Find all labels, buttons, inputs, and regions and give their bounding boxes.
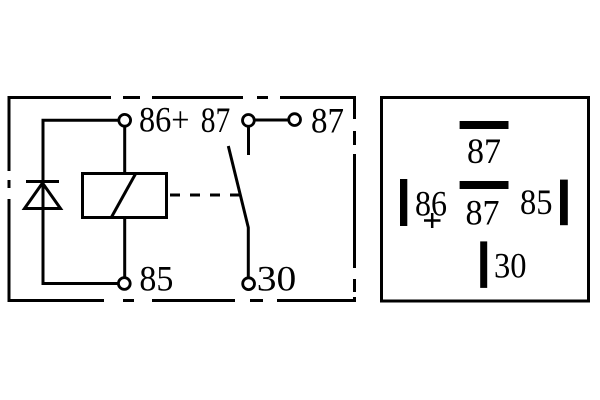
svg-text:87: 87 xyxy=(311,101,344,141)
svg-text:87: 87 xyxy=(466,193,500,233)
svg-text:85: 85 xyxy=(139,259,173,299)
svg-text:87: 87 xyxy=(467,131,501,171)
svg-text:30: 30 xyxy=(257,259,297,299)
svg-text:85: 85 xyxy=(520,182,553,222)
svg-text:30: 30 xyxy=(494,246,527,286)
svg-text:87: 87 xyxy=(201,100,231,140)
svg-text:86+: 86+ xyxy=(139,100,190,140)
